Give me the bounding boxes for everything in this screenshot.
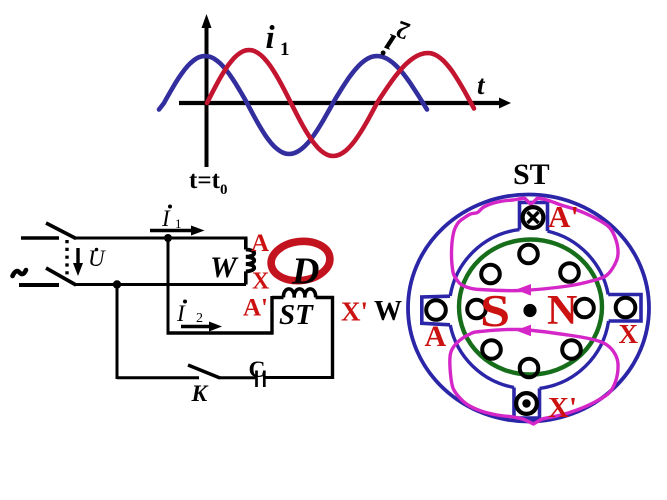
wire left drop (116, 285, 119, 380)
svg-text:A': A' (548, 199, 579, 234)
curve i1 (red sine) (207, 50, 474, 156)
coil ST (start winding) (272, 289, 334, 335)
wire i2 branch vertical (167, 238, 170, 335)
wire bottom left (117, 376, 199, 379)
svg-text:i: i (266, 20, 276, 56)
svg-text:X: X (252, 269, 270, 295)
slot square right (608, 295, 641, 322)
conductor bottom (dot) (516, 393, 537, 414)
svg-text:A: A (251, 230, 269, 257)
conductor left (426, 300, 446, 320)
label t=t0 (189, 167, 228, 198)
svg-text:A: A (425, 320, 447, 353)
svg-text:I: I (161, 206, 171, 231)
wire bottom of W branch (75, 283, 246, 286)
wire capacitor to right (265, 376, 334, 379)
rotor green circle (459, 240, 602, 375)
rotor shaft dot (523, 304, 536, 317)
switch blade bottom (46, 268, 76, 285)
svg-text:2: 2 (196, 311, 203, 326)
svg-text:ST: ST (279, 299, 314, 331)
switch K blade (188, 365, 220, 378)
svg-text:X': X' (548, 392, 577, 424)
conductor top (cross) (523, 207, 544, 228)
svg-text:1: 1 (280, 39, 290, 60)
voltage arrow down (73, 248, 83, 276)
flux loop bottom (magenta) (450, 329, 618, 424)
wire top main (75, 237, 248, 240)
arrow i2 (181, 322, 222, 332)
slot square bottom (514, 388, 540, 419)
label I1 current (161, 205, 182, 232)
source stub top (21, 236, 59, 240)
label I2 current (176, 300, 203, 327)
flux arrow upper (516, 284, 532, 296)
wire right vertical (331, 296, 334, 379)
switch blade top (46, 223, 76, 239)
motor D red ring (269, 238, 332, 284)
svg-text:X: X (619, 319, 639, 349)
dashed link between blades (65, 240, 68, 276)
svg-text:W: W (210, 251, 239, 284)
node bottom junction (113, 280, 121, 288)
svg-text:0: 0 (220, 182, 228, 198)
slot square left (422, 296, 450, 325)
capacitor C plates (257, 371, 265, 388)
flux arrow lower (516, 325, 532, 337)
conductor right (616, 298, 636, 318)
curve i2 (blue sine) (159, 56, 427, 154)
label i1 (266, 20, 290, 60)
stator outer circle (408, 195, 649, 422)
svg-text:D: D (291, 251, 319, 293)
coil W (main winding) (246, 238, 254, 285)
svg-text:I: I (176, 301, 186, 326)
svg-text:X': X' (341, 297, 368, 327)
wire i2 branch horizontal (167, 331, 274, 334)
flux loop top (magenta) (451, 198, 618, 290)
svg-text:C: C (249, 357, 266, 383)
svg-text:t: t (477, 70, 486, 100)
rotor bars (8) (467, 245, 594, 378)
arrow i1 (150, 226, 205, 236)
svg-text:S: S (480, 285, 510, 336)
svg-text:t=t: t=t (189, 167, 221, 194)
AC source tilde (13, 270, 27, 276)
label U (voltage) (88, 246, 106, 271)
node i1 junction (164, 234, 172, 242)
svg-text:W: W (374, 296, 402, 327)
wire K to capacitor (220, 376, 257, 379)
svg-text:N: N (547, 288, 577, 334)
axis Y (202, 14, 212, 167)
axis X (t axis) (179, 98, 511, 109)
slot square top (520, 203, 548, 232)
svg-text:A': A' (243, 295, 268, 322)
source stub bottom (19, 283, 59, 287)
stator bore circle (4 arcs with slot gaps) (450, 230, 608, 389)
svg-text:ST: ST (513, 158, 550, 191)
label i2 (rotated) (377, 15, 414, 63)
svg-text:K: K (191, 381, 209, 407)
